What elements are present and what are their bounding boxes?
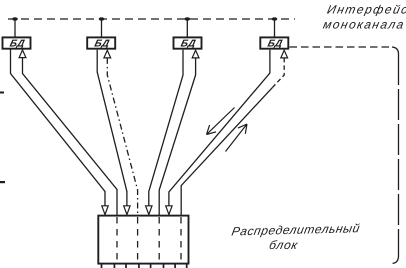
wire channel2 left (box2 down to block) [97, 50, 127, 206]
arrowhead up into box3 (open triangle) [192, 50, 199, 58]
wire dashed right vertical [398, 54, 400, 256]
wire tick box2 to bus [101, 19, 103, 37]
box БД 3 [174, 37, 202, 48]
wire channel1 right (box1 arrow down into block pass-through) [23, 58, 118, 216]
stub 5 below block [150, 264, 152, 268]
dashed divider ch2 inside block [137, 217, 139, 263]
svg-text:Распределительный: Распределительный [230, 221, 361, 238]
stub 2 below block [113, 264, 115, 268]
box БД 4 [260, 37, 288, 48]
wire tick box3 to bus [186, 19, 188, 37]
svg-text:моноканала: моноканала [322, 18, 406, 32]
dashed divider ch4 inside block [180, 217, 182, 263]
box БД 2 [87, 37, 115, 48]
stub 1 below block [101, 264, 103, 268]
wire dashed from box4 right edge going right [290, 46, 393, 48]
stub 7 below block [174, 264, 176, 268]
box БД 1 [3, 37, 31, 48]
wire dashed corner top-right [392, 47, 399, 54]
node N3 (bus junction dot) [185, 17, 191, 20]
speck left edge 2 [0, 181, 5, 183]
wire channel2 right (dash-dot pass-through) [107, 58, 137, 216]
arrowhead up into box4 (open triangle) [281, 50, 288, 58]
arrowhead down into block ch2 (open triangle) [124, 206, 130, 215]
flow arrow down-left [207, 108, 235, 135]
wire hook bottom-right [393, 256, 399, 263]
dashed divider ch1 inside block [116, 217, 118, 263]
dashed divider ch3 inside block [158, 217, 160, 263]
stub 8 below block [186, 264, 188, 268]
flow arrow up-right [226, 124, 248, 152]
wire channel4 left (box4 down to block) [169, 50, 270, 206]
node N2 (bus junction dot) [99, 17, 105, 20]
node N1 (bus junction dot) [12, 17, 18, 20]
arrowhead down into block ch4 (open triangle) [166, 206, 172, 215]
speck left edge 1 [0, 92, 4, 94]
svg-text:блок: блок [268, 238, 300, 252]
wire channel4 right upper (dashed segment) [273, 58, 285, 88]
wire channel3 left (box3 down to block) [149, 50, 183, 206]
distribution block rectangle [98, 216, 188, 264]
arrowhead up into box2 (open triangle) [104, 50, 111, 58]
stub 6 below block [163, 264, 165, 268]
stub 3 below block [125, 264, 127, 268]
wire channel4 right lower (pass-through) [181, 87, 272, 215]
arrowhead down into block ch3 (open triangle) [146, 206, 152, 215]
node N4 (bus junction dot) [272, 17, 278, 20]
wire channel1 left (box1 down to block) [11, 49, 106, 206]
wire channel3 right (pass-through) [159, 58, 195, 216]
wire tick box4 to bus [274, 19, 276, 37]
arrowhead up into box1 (open triangle) [19, 50, 26, 58]
wire tick box1 to bus [14, 19, 16, 37]
stub 4 below block [138, 264, 140, 268]
monochannel bus (dashed horizontal line) [8, 18, 295, 20]
arrowhead down into block ch1 (open triangle) [102, 206, 108, 215]
svg-text:Интерфейс: Интерфейс [326, 3, 406, 17]
